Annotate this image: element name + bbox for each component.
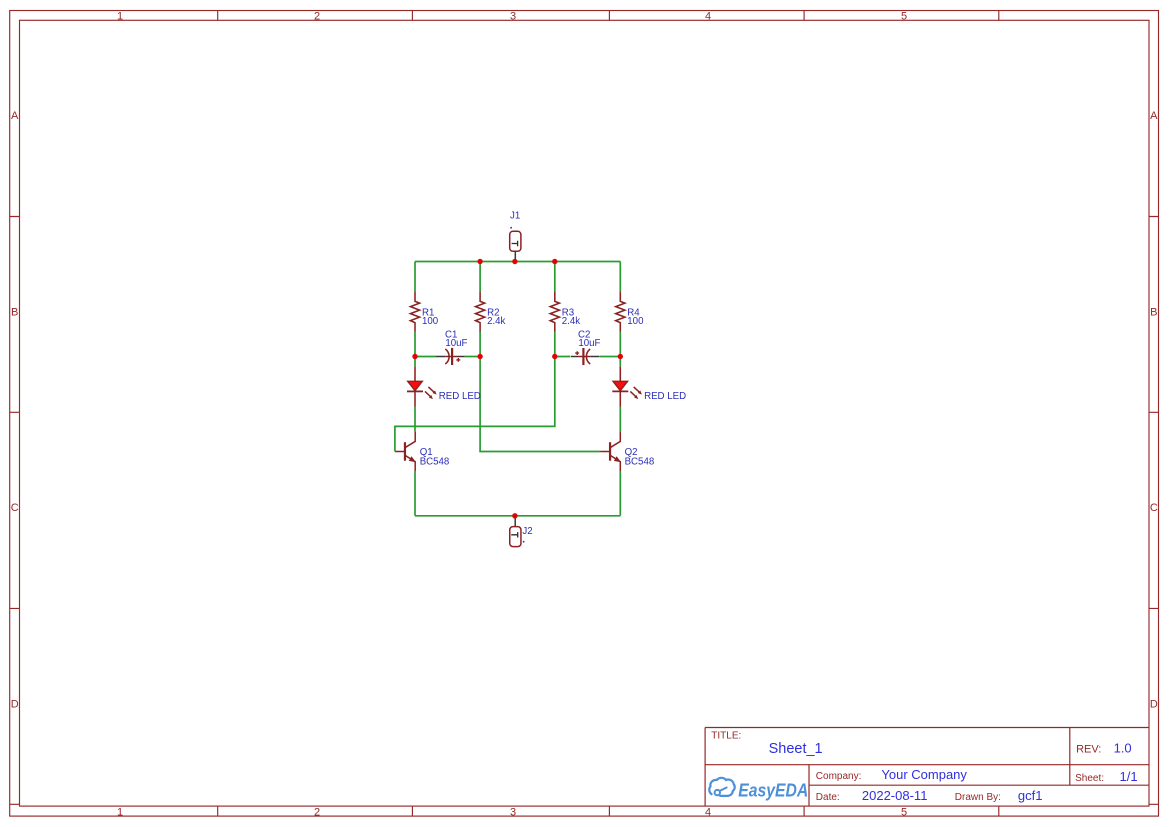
svg-text:gcf1: gcf1 xyxy=(1018,788,1043,803)
svg-text:3: 3 xyxy=(510,11,516,23)
svg-text:RED LED: RED LED xyxy=(644,391,686,402)
svg-text:J2: J2 xyxy=(522,526,532,537)
svg-text:100: 100 xyxy=(422,316,439,327)
svg-text:EasyEDA: EasyEDA xyxy=(738,779,808,801)
svg-text:5: 5 xyxy=(901,11,907,23)
svg-text:1: 1 xyxy=(117,11,123,23)
svg-text:2: 2 xyxy=(314,11,320,23)
svg-text:1.0: 1.0 xyxy=(1114,741,1132,756)
svg-text:2.4k: 2.4k xyxy=(487,316,505,327)
svg-text:4: 4 xyxy=(705,806,711,818)
svg-text:Date:: Date: xyxy=(816,792,840,803)
svg-text:C: C xyxy=(1150,502,1158,514)
svg-text:Sheet:: Sheet: xyxy=(1075,773,1104,784)
svg-text:2: 2 xyxy=(314,806,320,818)
svg-text:100: 100 xyxy=(627,316,644,327)
svg-text:2.4k: 2.4k xyxy=(562,316,580,327)
svg-text:Company:: Company: xyxy=(816,771,862,782)
svg-text:B: B xyxy=(11,306,18,318)
svg-text:Your Company: Your Company xyxy=(881,767,967,782)
svg-text:A: A xyxy=(11,110,19,122)
svg-text:B: B xyxy=(1150,306,1157,318)
svg-text:1: 1 xyxy=(117,806,123,818)
svg-text:C: C xyxy=(11,502,19,514)
svg-text:3: 3 xyxy=(510,806,516,818)
svg-text:10uF: 10uF xyxy=(445,338,467,349)
svg-text:A: A xyxy=(1150,110,1158,122)
svg-text:1/1: 1/1 xyxy=(1120,769,1138,784)
svg-text:Drawn By:: Drawn By: xyxy=(955,792,1001,803)
svg-text:RED LED: RED LED xyxy=(439,391,481,402)
svg-text:D: D xyxy=(1150,698,1158,710)
svg-text:5: 5 xyxy=(901,806,907,818)
svg-text:REV:: REV: xyxy=(1076,744,1101,756)
svg-text:BC548: BC548 xyxy=(420,457,450,468)
svg-text:4: 4 xyxy=(705,11,711,23)
svg-text:Sheet_1: Sheet_1 xyxy=(769,741,823,757)
svg-text:2022-08-11: 2022-08-11 xyxy=(862,788,928,803)
svg-text:TITLE:: TITLE: xyxy=(711,730,741,741)
svg-text:10uF: 10uF xyxy=(578,338,600,349)
svg-text:BC548: BC548 xyxy=(625,457,655,468)
svg-text:D: D xyxy=(11,698,19,710)
svg-text:J1: J1 xyxy=(510,210,520,221)
